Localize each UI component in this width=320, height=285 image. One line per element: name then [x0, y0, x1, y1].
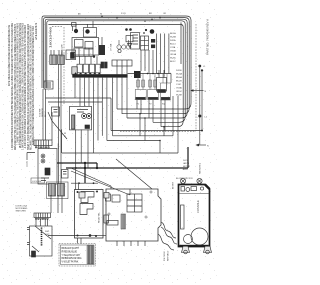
- inline connector module C: [161, 74, 171, 101]
- relay K2: [80, 204, 93, 215]
- svg-text:BLOWER MOTOR: BLOWER MOTOR: [176, 178, 193, 180]
- svg-text:TOD SW: TOD SW: [40, 109, 42, 117]
- console left vertical label: [62, 44, 64, 57]
- board rect B: [112, 195, 120, 202]
- svg-text:WARNING: DISCONNECT POWER BEFO: WARNING: DISCONNECT POWER BEFORE SERVICI…: [31, 26, 35, 145]
- long horizontal wires left-mid: [46, 98, 112, 131]
- svg-text:R GY: R GY: [121, 13, 127, 15]
- relay board holes: [77, 191, 99, 238]
- legend table text rows: [62, 247, 82, 264]
- connector block lower-left B: [58, 184, 65, 197]
- relay K1: [81, 192, 94, 203]
- svg-text:BK-2B: BK-2B: [176, 81, 182, 83]
- pilot lamp dark: [143, 29, 154, 34]
- small module below connectors: [72, 67, 78, 74]
- latch ground stubs: [27, 228, 30, 245]
- svg-text:GY-6B: GY-6B: [170, 51, 176, 53]
- svg-text:GY-8A: GY-8A: [176, 87, 182, 90]
- svg-text:LOCK SW: LOCK SW: [32, 181, 41, 183]
- svg-text:W-20B: W-20B: [170, 37, 177, 39]
- svg-text:ASSY: ASSY: [183, 168, 189, 171]
- boxed label text: [32, 181, 41, 183]
- component LA1 dark blob: [99, 37, 105, 55]
- svg-text:W-41A: W-41A: [176, 73, 183, 76]
- svg-text:MOTOR: MOTOR: [183, 166, 191, 168]
- svg-text:GY 30B: GY 30B: [111, 43, 113, 51]
- thermal switch TS on top harness: [84, 21, 97, 37]
- svg-text:BU-14: BU-14: [170, 44, 176, 46]
- blower housing text above: [176, 178, 193, 180]
- blower feet: [182, 247, 212, 254]
- blower big circle: [184, 228, 209, 245]
- small box between boards: [104, 215, 109, 223]
- wire label stack mid right: [176, 70, 183, 97]
- small contact squares: [151, 39, 155, 48]
- wires door switch box down: [62, 129, 88, 184]
- pn text below blower: [164, 250, 170, 261]
- svg-text:DOOR: DOOR: [183, 160, 189, 162]
- selector switch box: [131, 33, 140, 50]
- svg-text:W: W: [100, 14, 102, 16]
- legend table dotted box: [59, 244, 96, 267]
- board top connector row: [79, 192, 109, 198]
- lock unit box mid-left: [38, 149, 57, 185]
- clock timer block: [72, 38, 99, 65]
- supply line N: [201, 69, 203, 131]
- wire label stack upper right: [170, 32, 177, 63]
- svg-text:Y-14C: Y-14C: [176, 84, 182, 86]
- small part below junction box: [52, 107, 60, 116]
- small box right of clock: [118, 36, 133, 53]
- board connector strip dark: [121, 214, 126, 229]
- vertical wire label console: [111, 43, 113, 51]
- svg-text:Y YELLOW GY GRY: Y YELLOW GY GRY: [62, 255, 81, 257]
- blower left slot: [181, 205, 185, 229]
- terminal labels right margin: [203, 66, 208, 119]
- component bar mid console: [101, 60, 132, 68]
- svg-text:PART NO. 74004545 REV A: PART NO. 74004545 REV A: [207, 19, 210, 55]
- right margin part number vertical: [207, 19, 210, 55]
- svg-text:P/N 74008: P/N 74008: [164, 251, 166, 261]
- board bar component: [107, 221, 118, 226]
- svg-text:R-31A: R-31A: [170, 39, 176, 42]
- latch assembly text: [45, 231, 50, 236]
- bus junction dots: [75, 162, 99, 169]
- switch bank row: [71, 53, 101, 73]
- console center drop wires: [128, 34, 171, 84]
- control board holes: [108, 191, 152, 218]
- dots on console dashed top: [125, 28, 132, 31]
- screw circles above blower: [180, 178, 202, 183]
- svg-text:R RED BU BLUE: R RED BU BLUE: [62, 251, 78, 253]
- notes text block left margin: [7, 22, 53, 150]
- lower-left notes text: [16, 206, 28, 213]
- relay board outline: [75, 190, 104, 239]
- svg-text:R-31B: R-31B: [176, 70, 182, 72]
- thick bus wire lower mid: [57, 147, 188, 183]
- small device on left wires: [62, 170, 69, 179]
- svg-text:BR BROWN OR ORG: BR BROWN OR ORG: [62, 258, 82, 260]
- short wire with junction above board: [71, 182, 98, 184]
- terminal arrow lower right margin: [188, 144, 206, 147]
- svg-text:16010466: 16010466: [49, 26, 53, 48]
- indicator lamps: [117, 40, 131, 49]
- wires console verticals down to fan-out: [137, 96, 178, 153]
- svg-text:SWITCHES: SWITCHES: [16, 211, 27, 213]
- thermostat capillary label text: [40, 108, 67, 149]
- junction drop wires mid field: [140, 114, 164, 141]
- top harness junction dots: [101, 15, 161, 21]
- svg-text:OR-3A: OR-3A: [170, 53, 177, 56]
- latch motor text block: [183, 160, 202, 174]
- dark terminal bus bar: [72, 71, 140, 78]
- board rect A: [106, 194, 111, 201]
- fuse F1 on top harness: [72, 23, 79, 34]
- console junction dots: [147, 73, 159, 75]
- svg-text:BU-6A: BU-6A: [176, 76, 182, 79]
- svg-text:BK BLACK W WHT: BK BLACK W WHT: [62, 247, 80, 250]
- svg-text:W: W: [64, 133, 66, 135]
- terminal box console left: [66, 50, 76, 60]
- branch arrow N: [190, 89, 203, 92]
- inline connector module B: [148, 74, 159, 100]
- L bracket wire left: [27, 153, 36, 167]
- control board outline: [106, 189, 161, 241]
- diagonal wire mid-left: [48, 112, 67, 139]
- svg-text:SENSOR: SENSOR: [42, 108, 44, 117]
- junction dots mid field: [139, 113, 165, 141]
- door switch box: [70, 106, 92, 129]
- dashed console outline: [52, 24, 196, 132]
- connector blocks console left: [50, 50, 65, 64]
- svg-text:OVEN LIGHT: OVEN LIGHT: [62, 44, 64, 57]
- connector strip lower-left: [34, 213, 51, 220]
- wires left console down: [43, 64, 61, 184]
- svg-text:211034: 211034: [34, 22, 38, 40]
- supply line L1: [198, 65, 201, 145]
- svg-text:W-20C: W-20C: [170, 58, 177, 60]
- svg-text:BK-1C: BK-1C: [170, 61, 176, 63]
- junction box left harness end: [44, 81, 53, 89]
- component bar drop wires: [117, 66, 127, 118]
- connector frame lower-left: [47, 182, 69, 199]
- blower inner parts top: [181, 187, 204, 192]
- svg-text:RELAY BD: RELAY BD: [98, 212, 101, 223]
- svg-text:BK W R: BK W R: [173, 181, 175, 189]
- relay grid block: [141, 36, 149, 50]
- diagonal wires to control board: [62, 153, 178, 195]
- board relay grid: [127, 194, 142, 212]
- svg-text:V VIOLET PK PNK: V VIOLET PK PNK: [62, 262, 79, 264]
- top margin tiny labels: [78, 13, 167, 15]
- svg-text:REV WD10: REV WD10: [168, 250, 170, 261]
- module labels: [137, 104, 166, 106]
- bus bar drop wires: [75, 78, 113, 153]
- blower housing box: [179, 185, 210, 247]
- svg-text:OR-5C: OR-5C: [176, 91, 183, 93]
- boxed label lower-left: [31, 178, 45, 183]
- left small text column at blower: [173, 181, 175, 189]
- relay board label vertical: [98, 212, 101, 223]
- svg-text:BK-1A: BK-1A: [170, 32, 176, 35]
- wire fan-out horizontals lower: [107, 131, 202, 154]
- latch assembly box lower-left: [30, 220, 53, 258]
- squiggle wires to blower: [158, 222, 177, 250]
- svg-text:LATCH: LATCH: [183, 162, 190, 165]
- board bottom stubs: [78, 238, 146, 246]
- svg-text:W-20E: W-20E: [176, 95, 183, 97]
- terminal label lower right: [207, 146, 209, 148]
- connector strip mid-left: [34, 140, 52, 148]
- svg-text:SEE NOTE 3: SEE NOTE 3: [200, 162, 202, 174]
- wires above boards: [51, 184, 130, 213]
- svg-text:CONSOLE: CONSOLE: [196, 200, 200, 213]
- connector block lower-left A: [49, 184, 56, 197]
- svg-text:Y-22A: Y-22A: [170, 46, 176, 49]
- oven light switch box: [157, 70, 167, 93]
- blower label vertical: [196, 200, 200, 213]
- wire bundle harness top-left to right side: [42, 16, 191, 127]
- svg-text:LOCK: LOCK: [58, 143, 60, 149]
- wire to relay board lower: [48, 235, 106, 237]
- scan speckle background: [0, 0, 218, 285]
- inline connector module A: [135, 74, 146, 100]
